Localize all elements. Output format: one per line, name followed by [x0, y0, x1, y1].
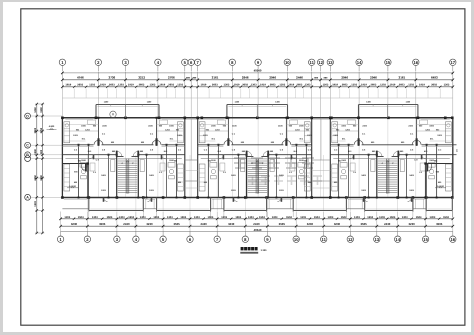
- svg-text:40540: 40540: [254, 228, 262, 232]
- svg-text:3736: 3736: [109, 76, 116, 80]
- unit 3 interior walls: [339, 118, 437, 198]
- elevation mark at x=440.5: [435, 185, 446, 188]
- top axis circle 1: [59, 59, 65, 71]
- svg-text:1303: 1303: [150, 84, 156, 87]
- bottom exterior wall window lines: [64, 198, 87, 200]
- bottom axis extension lines: [60, 212, 62, 233]
- unit 1 right bath fixtures: [160, 163, 175, 179]
- svg-text:1504: 1504: [235, 216, 241, 219]
- svg-text:1303: 1303: [119, 216, 125, 219]
- svg-text:C: C: [26, 144, 29, 148]
- svg-text:2946: 2946: [341, 76, 348, 80]
- svg-text:15: 15: [423, 237, 428, 242]
- top bay window 3: [357, 101, 419, 120]
- svg-text:1303: 1303: [430, 216, 436, 219]
- svg-text:1919: 1919: [419, 84, 425, 87]
- svg-text:1504: 1504: [259, 216, 265, 219]
- svg-text:2603: 2603: [371, 84, 377, 87]
- svg-text:1303: 1303: [251, 84, 257, 87]
- svg-text:1503: 1503: [34, 201, 37, 207]
- bottom axis circle 4: [133, 232, 139, 243]
- unit 1 window sill lines: [64, 125, 182, 142]
- bottom dimension line 1: [61, 218, 453, 220]
- svg-text:13: 13: [328, 60, 333, 65]
- bottom axis circle 15: [422, 232, 428, 243]
- top axis circle 17: [450, 59, 456, 71]
- bottom dimension line 3: [61, 231, 453, 233]
- svg-text:14.100: 14.100: [69, 185, 76, 188]
- columns on top wall: [61, 117, 64, 120]
- svg-text:1504: 1504: [314, 216, 320, 219]
- svg-text:14.100: 14.100: [437, 185, 444, 188]
- svg-text:A: A: [26, 196, 29, 200]
- svg-text:1303: 1303: [92, 216, 98, 219]
- unit 3 wall row B: [330, 155, 453, 159]
- unit 2 left kitchen door arcs: [224, 128, 233, 145]
- svg-text:1303: 1303: [272, 216, 278, 219]
- unit 2 wardrobes: [199, 164, 310, 191]
- svg-text:1504: 1504: [367, 216, 373, 219]
- svg-text:1303: 1303: [118, 84, 124, 87]
- top axis circle 15: [385, 59, 391, 71]
- svg-text:10: 10: [285, 60, 290, 65]
- unit 1 interior walls: [79, 118, 177, 198]
- bottom axis circle 5: [160, 232, 166, 243]
- svg-text:1500: 1500: [34, 149, 37, 155]
- top bay window 1: [95, 101, 160, 120]
- svg-text:1303: 1303: [177, 84, 183, 87]
- svg-text:40540: 40540: [254, 69, 262, 73]
- eave outline line: [62, 97, 452, 99]
- svg-text:3230: 3230: [228, 222, 235, 226]
- top dimension ticks: [61, 72, 63, 89]
- svg-text:17: 17: [450, 60, 455, 65]
- svg-text:1303: 1303: [167, 216, 173, 219]
- stair core unit 2: [247, 157, 269, 198]
- top exterior wall: [62, 117, 452, 119]
- unit 3 right hall door arc: [421, 155, 426, 160]
- unit 2 wall row C: [198, 145, 312, 147]
- svg-text:1504: 1504: [341, 216, 347, 219]
- unit 2 wall row B: [198, 155, 312, 159]
- unit 1 left hall door arc: [89, 155, 94, 160]
- walkway lines between balconies: [62, 208, 88, 210]
- unit 1 left kitchen door arcs: [94, 128, 103, 145]
- top axis circle 8: [229, 59, 235, 71]
- svg-text:1919: 1919: [234, 84, 240, 87]
- svg-text:1303: 1303: [408, 84, 414, 87]
- light well at x=185: [185, 118, 198, 198]
- unit 1 wall junction nodes: [78, 117, 178, 199]
- unit 1 stair entry doors: [116, 151, 139, 157]
- light well at x=312: [312, 118, 331, 198]
- top dimension sub ticks: [73, 86, 75, 88]
- svg-text:11: 11: [309, 60, 314, 65]
- unit 1 wall row B: [62, 155, 184, 159]
- svg-text:3505: 3505: [360, 222, 367, 226]
- svg-text:1303: 1303: [444, 84, 450, 87]
- columns on bottom wall: [61, 196, 64, 199]
- bottom axis circle 8: [242, 232, 248, 243]
- svg-text:16: 16: [413, 60, 418, 65]
- top dimension line 2: [62, 86, 452, 88]
- balcony 5: [365, 198, 413, 213]
- unit 2 stair entry doors: [246, 151, 269, 157]
- balcony 6: [426, 198, 452, 213]
- bottom dimension ticks: [59, 218, 62, 221]
- top exterior wall window lines: [65, 119, 93, 121]
- svg-text:2603: 2603: [109, 84, 115, 87]
- bottom axis circle 7: [214, 232, 220, 243]
- unit 2 wall junction nodes: [207, 117, 307, 199]
- svg-text:14: 14: [357, 60, 362, 65]
- svg-text:12: 12: [348, 237, 353, 242]
- right end wall: [452, 118, 454, 198]
- svg-text:3230: 3230: [408, 222, 415, 226]
- svg-text:1303: 1303: [194, 216, 200, 219]
- svg-text:1504: 1504: [107, 216, 113, 219]
- svg-text:2446: 2446: [296, 76, 303, 80]
- top axis circle 10: [284, 59, 290, 71]
- svg-text:1303: 1303: [351, 84, 357, 87]
- svg-text:2603: 2603: [139, 84, 145, 87]
- svg-text:1303: 1303: [224, 84, 230, 87]
- unit 2 stair side cabinets: [241, 160, 275, 172]
- bottom axis circle 3: [114, 232, 120, 243]
- bottom exterior wall: [62, 197, 452, 199]
- svg-text:1919: 1919: [100, 84, 106, 87]
- top axis circle 2: [95, 59, 101, 71]
- stair core unit 3: [377, 157, 399, 198]
- bottom axis circle 11: [321, 232, 327, 243]
- top axis circle 7: [195, 59, 201, 71]
- svg-text:1303: 1303: [402, 216, 408, 219]
- svg-text:4746: 4746: [77, 76, 84, 80]
- svg-text:2603: 2603: [270, 84, 276, 87]
- unit 3 kitchen counters: [332, 120, 452, 143]
- unit 3 wall row C: [330, 145, 453, 147]
- unit 1 right kitchen door arcs: [152, 128, 161, 145]
- svg-text:2603: 2603: [168, 84, 174, 87]
- unit 2 window sill lines: [200, 125, 310, 142]
- unit 3 dimension annotations: [333, 125, 442, 193]
- washing symbol in bay 1: [110, 111, 116, 117]
- svg-text:3161: 3161: [212, 76, 219, 80]
- stair core unit 1: [117, 157, 139, 198]
- svg-text:2946: 2946: [242, 76, 249, 80]
- svg-text:11: 11: [321, 237, 326, 242]
- svg-text:13: 13: [374, 237, 379, 242]
- svg-text:6493: 6493: [431, 76, 438, 80]
- unit 1 wardrobes: [64, 164, 183, 191]
- top axis circle 9: [255, 59, 261, 71]
- svg-text:1303: 1303: [64, 216, 70, 219]
- svg-text:14: 14: [395, 237, 400, 242]
- bottom axis circle 14: [395, 232, 401, 243]
- bottom dimension sub ticks: [73, 218, 75, 220]
- title 二层平面图 (blocky): [240, 247, 267, 253]
- svg-text:1303: 1303: [305, 84, 311, 87]
- svg-text:3800: 3800: [34, 127, 37, 133]
- svg-text:2603: 2603: [212, 84, 218, 87]
- svg-text:1919: 1919: [201, 84, 207, 87]
- svg-text:3505: 3505: [99, 222, 106, 226]
- unit 1 stair side cabinets: [111, 160, 145, 172]
- svg-text:2603: 2603: [242, 84, 248, 87]
- svg-text:B: B: [26, 153, 29, 157]
- unit 2 right bath fixtures: [290, 163, 305, 179]
- unit 3 right kitchen door arcs: [412, 128, 421, 145]
- left axis circle D: [25, 113, 63, 119]
- bottom axis circle 1: [57, 232, 63, 243]
- svg-text:1919: 1919: [128, 84, 134, 87]
- top axis circle 6: [188, 59, 194, 71]
- bottom axis circle 2: [84, 232, 90, 243]
- left dimension line inner: [42, 104, 44, 233]
- svg-text:3230: 3230: [307, 222, 314, 226]
- unit 2 left bath fixtures: [210, 163, 225, 179]
- top axis circle 5: [182, 59, 188, 71]
- unit 2 right hall door arc: [291, 155, 296, 160]
- unit 3 left bath fixtures: [340, 163, 355, 179]
- svg-text:4.900: 4.900: [49, 125, 55, 128]
- bottom axis circle 12: [347, 232, 353, 243]
- svg-text:2603: 2603: [342, 84, 348, 87]
- unit 3 left kitchen door arcs: [354, 128, 363, 145]
- svg-text:3212: 3212: [138, 76, 145, 80]
- left dimension ticks: [35, 103, 44, 105]
- top axis extension lines: [61, 89, 63, 118]
- left end room divider wall: [62, 159, 99, 199]
- unit 3 stair side cabinets: [371, 160, 405, 172]
- svg-text:1504: 1504: [286, 216, 292, 219]
- svg-text:1919: 1919: [361, 84, 367, 87]
- bottom axis circle 13: [374, 232, 380, 243]
- unit 1 kitchen counters: [64, 120, 183, 143]
- svg-text:1504: 1504: [128, 216, 134, 219]
- bottom axis circle 16: [450, 232, 456, 243]
- top axis circle 11: [309, 59, 315, 71]
- left dimension line outer: [36, 104, 38, 233]
- svg-text:2430: 2430: [253, 222, 260, 226]
- top axis circle 16: [413, 59, 419, 71]
- top axis circle 14: [356, 59, 362, 71]
- svg-text:15: 15: [386, 60, 391, 65]
- top overall dimension line: [62, 72, 452, 74]
- svg-text:12: 12: [318, 60, 323, 65]
- svg-text:2750: 2750: [40, 127, 43, 133]
- svg-text:16: 16: [450, 237, 455, 242]
- balcony 1: [89, 198, 144, 213]
- unit 1 wall row C: [62, 145, 184, 147]
- svg-text:3505: 3505: [279, 222, 286, 226]
- svg-text:1:100: 1:100: [261, 249, 268, 252]
- svg-text:3505: 3505: [173, 222, 180, 226]
- svg-text:900: 900: [40, 149, 43, 154]
- svg-text:1504: 1504: [153, 216, 159, 219]
- svg-text:10: 10: [294, 237, 299, 242]
- svg-text:1919: 1919: [332, 84, 338, 87]
- svg-text:2430: 2430: [123, 222, 130, 226]
- svg-text:1303: 1303: [221, 216, 227, 219]
- unit 2 kitchen counters: [199, 120, 310, 143]
- svg-text:1303: 1303: [300, 216, 306, 219]
- svg-text:3230: 3230: [334, 222, 341, 226]
- unit 1 dimension annotations: [73, 125, 182, 193]
- svg-text:3900: 3900: [40, 175, 43, 181]
- svg-text:1504: 1504: [78, 216, 84, 219]
- unit 3 window sill lines: [332, 125, 451, 142]
- svg-text:1500: 1500: [40, 107, 43, 113]
- unit 1 right hall door arc: [161, 155, 166, 160]
- unit 3 wall junction nodes: [338, 117, 438, 199]
- svg-text:2706: 2706: [168, 76, 175, 80]
- svg-text:1919: 1919: [159, 84, 165, 87]
- elevation mark at x=72.5: [67, 185, 78, 188]
- top axis circle 3: [122, 59, 128, 71]
- bottom axis circle 6: [187, 232, 193, 243]
- unit 2 dimension annotations: [203, 125, 312, 193]
- svg-text:2603: 2603: [77, 84, 83, 87]
- svg-text:3230: 3230: [146, 222, 153, 226]
- plan axis grid lines: [97, 118, 99, 198]
- top axis circle 13: [327, 59, 333, 71]
- svg-text:1m: 1m: [456, 149, 459, 152]
- svg-text:2946: 2946: [370, 76, 377, 80]
- watermark: [234, 158, 314, 169]
- svg-text:1504: 1504: [180, 216, 186, 219]
- svg-text:1303: 1303: [379, 216, 385, 219]
- svg-text:1919: 1919: [288, 84, 294, 87]
- unit 2 interior walls: [208, 118, 306, 198]
- unit 2 left hall door arc: [219, 155, 224, 160]
- svg-text:1919: 1919: [65, 84, 71, 87]
- unit 3 right bath fixtures: [420, 163, 435, 179]
- bottom axis circle 10: [293, 232, 299, 243]
- svg-text:1303: 1303: [248, 216, 254, 219]
- svg-text:3230: 3230: [71, 222, 78, 226]
- top bay window 2: [226, 101, 289, 120]
- svg-text:3505: 3505: [436, 222, 443, 226]
- balcony door arcs: [104, 198, 108, 202]
- svg-text:1504: 1504: [416, 216, 422, 219]
- right end room divider wall: [414, 159, 453, 199]
- svg-text:1303: 1303: [140, 216, 146, 219]
- unit 3 wardrobes: [332, 164, 452, 191]
- svg-text:2430: 2430: [384, 222, 391, 226]
- unit 3 stair entry doors: [376, 151, 399, 157]
- svg-text:4650: 4650: [34, 175, 37, 181]
- svg-text:1303: 1303: [328, 216, 334, 219]
- left axis circle B: [25, 152, 63, 158]
- svg-text:1504: 1504: [390, 216, 396, 219]
- balcony 2: [157, 198, 211, 213]
- svg-text:1919: 1919: [260, 84, 266, 87]
- left axis circle C: [25, 142, 63, 148]
- svg-text:2603: 2603: [399, 84, 405, 87]
- bottom axis circle 9: [264, 232, 270, 243]
- svg-text:1303: 1303: [380, 84, 386, 87]
- balcony 3: [224, 198, 267, 213]
- svg-text:1303: 1303: [279, 84, 285, 87]
- svg-text:1504: 1504: [208, 216, 214, 219]
- svg-text:2603: 2603: [297, 84, 303, 87]
- left axis circle A: [25, 194, 63, 200]
- unit 1 left bath fixtures: [80, 163, 95, 179]
- bottom dimension line 2: [61, 225, 453, 227]
- right wall stubs: [453, 144, 457, 146]
- svg-text:1303: 1303: [354, 216, 360, 219]
- svg-text:1504: 1504: [443, 216, 449, 219]
- unit 2 right kitchen door arcs: [282, 128, 291, 145]
- svg-text:2430: 2430: [200, 222, 207, 226]
- top axis circle 12: [317, 59, 323, 71]
- svg-text:3161: 3161: [399, 76, 406, 80]
- top dimension line 1: [62, 79, 452, 81]
- left axis circle B1: [25, 156, 63, 162]
- top axis circle 4: [155, 59, 161, 71]
- svg-text:1303: 1303: [89, 84, 95, 87]
- balcony 4: [293, 198, 346, 213]
- svg-text:1203: 1203: [323, 84, 329, 87]
- unit 3 left hall door arc: [349, 155, 354, 160]
- svg-text:2603: 2603: [431, 84, 437, 87]
- svg-text:1919: 1919: [390, 84, 396, 87]
- svg-text:2946: 2946: [269, 76, 276, 80]
- left end wall: [61, 118, 63, 198]
- svg-text:D: D: [26, 114, 29, 118]
- svg-text:1060: 1060: [34, 107, 37, 113]
